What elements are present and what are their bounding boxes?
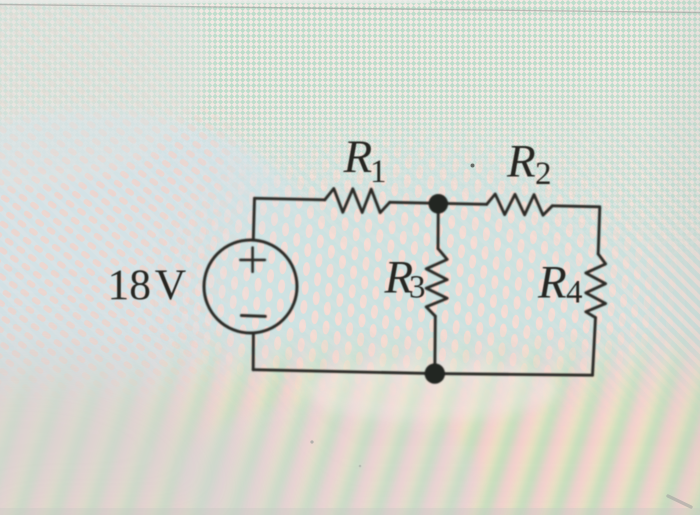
left-middle pink dashes: [0, 0, 340, 515]
plus sign: [240, 248, 265, 272]
global tone: [0, 0, 1, 1]
wire: R2 to top-right corner down to R4: [552, 206, 600, 254]
svg-text:3: 3: [409, 270, 426, 306]
circuit: [204, 189, 606, 376]
bottom pastel stripes: [0, 330, 700, 515]
resistor R4: [586, 254, 606, 318]
wire: source top to top-left corner: [253, 198, 254, 240]
wire: bottom-right corner to node B: [435, 374, 593, 376]
svg-text:18: 18: [108, 261, 152, 309]
voltage source V1: [204, 240, 297, 333]
wire: R3 to node B: [433, 316, 436, 373]
svg-text:R: R: [537, 257, 567, 309]
resistor R1: [325, 189, 390, 213]
wire: node A to R2: [438, 203, 486, 204]
scratch bottom-right corner: [668, 496, 691, 507]
svg-text:2: 2: [535, 156, 552, 192]
dust speck lower mid: [359, 465, 362, 468]
top checker band: [0, 0, 700, 280]
wire: node B to bottom-left corner: [253, 370, 435, 374]
wire: node A down to R3: [437, 203, 440, 248]
minus sign: [241, 314, 265, 318]
node A (top junction): [429, 194, 449, 214]
svg-text:R: R: [343, 131, 373, 183]
node B (bottom junction): [425, 363, 445, 383]
svg-text:4: 4: [566, 275, 583, 311]
speck between R1 and R2: [471, 164, 475, 168]
lavender tint bottom-centre: [180, 400, 480, 515]
svg-text:V: V: [155, 261, 186, 309]
resistor R3: [426, 249, 447, 317]
pale wash near bottom node: [300, 360, 560, 420]
svg-text:1: 1: [370, 154, 387, 190]
resistor R2: [487, 194, 553, 215]
dust speck lower left: [310, 440, 313, 443]
labels: [108, 131, 583, 311]
wire: R4 to bottom-right corner: [593, 318, 596, 376]
bottom darker strip: [0, 508, 700, 515]
screen-top diagonal line: [0, 0, 430, 3]
cyan wash left-middle: [0, 110, 325, 420]
wire: top-left corner to R1: [255, 198, 325, 200]
wire: bottom-left corner up to source bottom: [252, 333, 255, 369]
wire: R1 to node A: [390, 202, 439, 203]
grey wash top-left corner: [0, 0, 210, 190]
svg-text:R: R: [506, 136, 536, 188]
